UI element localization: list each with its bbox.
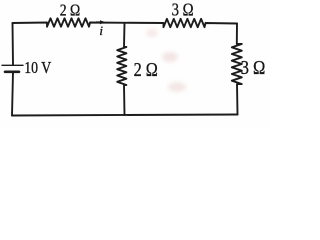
svg-text:2 Ω: 2 Ω <box>60 0 80 19</box>
svg-text:2 Ω: 2 Ω <box>134 59 158 81</box>
svg-text:3 Ω: 3 Ω <box>172 0 194 19</box>
svg-text:3 Ω: 3 Ω <box>241 57 266 79</box>
svg-text:i: i <box>99 23 103 38</box>
svg-text:10 V: 10 V <box>24 58 52 77</box>
